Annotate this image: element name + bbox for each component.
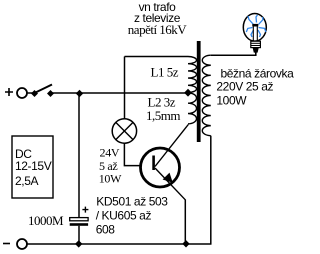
winding L2 (3 turns) <box>188 93 197 124</box>
svg-text:100W: 100W <box>216 94 247 108</box>
svg-text:/ KU605 až: / KU605 až <box>96 209 152 223</box>
lamp 24V circle-X <box>112 119 136 143</box>
svg-text:24V: 24V <box>100 146 120 160</box>
node tap L1/L2 junction <box>184 89 192 97</box>
svg-text:napětí 16kV: napětí 16kV <box>128 22 188 37</box>
terminal circle + <box>17 88 27 98</box>
svg-text:běžná žárovka: běžná žárovka <box>221 67 295 81</box>
wire secondary top to bulb <box>211 51 256 56</box>
wire bulb base down <box>255 52 257 55</box>
minus terminal symbol <box>3 243 10 245</box>
svg-text:2,5A: 2,5A <box>15 174 38 188</box>
wire secondary bottom to rail <box>210 136 212 244</box>
wire capacitor to bottom rail <box>78 226 80 244</box>
bulb globe <box>243 13 266 41</box>
emitter line <box>155 168 185 200</box>
capacitor C1 plates <box>70 218 88 221</box>
wire L1 top horizontal <box>125 56 189 58</box>
svg-text:220V 25 až: 220V 25 až <box>216 80 273 94</box>
bulb blue filament cracks <box>246 15 266 37</box>
switch S1 <box>31 90 38 97</box>
wire down to capacitor <box>78 93 80 218</box>
svg-text:608: 608 <box>96 223 116 237</box>
junction dot capacitor branch <box>76 90 83 97</box>
emitter wire down <box>184 200 186 245</box>
collector line to L2 <box>155 125 188 167</box>
wire down to lamp (crosses main wire) <box>124 57 126 120</box>
capacitor plus sign <box>82 207 88 213</box>
emitter arrow <box>163 173 173 183</box>
junction dot emitter/rail <box>182 240 189 247</box>
wire lamp to transistor base <box>124 143 152 165</box>
secondary winding (8 turns) <box>202 55 211 135</box>
terminal circle - <box>17 239 27 249</box>
wire terminal to switch <box>27 92 34 94</box>
svg-text:1,5mm: 1,5mm <box>146 108 180 123</box>
junction dot capacitor bottom <box>75 240 82 247</box>
transistor base bar <box>152 156 155 171</box>
transistor Q1 circle <box>141 148 180 187</box>
svg-text:L1 5z: L1 5z <box>151 64 179 79</box>
plus terminal symbol <box>5 88 13 96</box>
bulb filament stem <box>252 26 254 41</box>
DC source box <box>12 136 53 198</box>
svg-text:1000M: 1000M <box>28 213 64 228</box>
transformer core <box>197 41 201 142</box>
winding L1 (5 turns) <box>188 57 197 93</box>
svg-text:10W: 10W <box>99 171 122 185</box>
svg-text:12-15V: 12-15V <box>15 159 52 173</box>
svg-text:KD501 až 503: KD501 až 503 <box>96 195 168 209</box>
bottom wire rail <box>27 243 212 245</box>
bulb screw base <box>251 41 261 47</box>
wire switch to transformer tap <box>51 92 189 94</box>
